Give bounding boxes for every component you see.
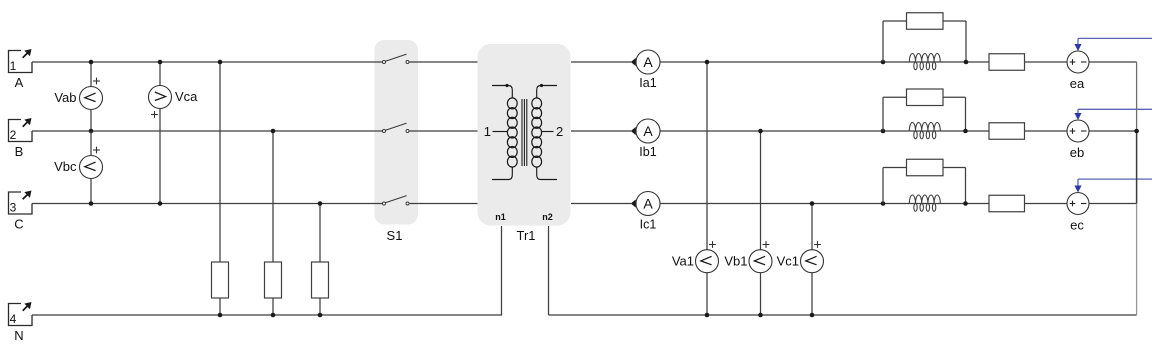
node: Vab branch on phase A	[89, 60, 94, 65]
wire Vca branch upper	[159, 62, 161, 86]
parallel resistor (phase b)	[907, 89, 944, 106]
svg-text:3: 3	[10, 201, 17, 215]
wire phase A: switch S1 to Tr1	[410, 61, 478, 63]
wire RL loop top-right (phase a)	[943, 20, 966, 22]
svg-text:eb: eb	[1070, 145, 1084, 160]
svg-text:Vab: Vab	[54, 90, 76, 105]
resistor (phase B shunt)	[265, 262, 282, 298]
Tr1 core	[522, 99, 527, 166]
svg-text:n2: n2	[542, 212, 553, 222]
node: Va1 branch tap	[705, 60, 710, 65]
wire Vc1 branch to neutral	[811, 273, 813, 315]
node: RL branch right (phase a)	[964, 60, 969, 65]
wire neutral: n2 to bottom right corner	[549, 314, 1137, 316]
port 3 (phase C terminal)	[9, 191, 33, 232]
port 2 (phase B terminal)	[9, 118, 33, 159]
svg-text:4: 4	[10, 312, 17, 326]
wire RL loop right (phase a)	[965, 21, 967, 62]
wire RL loop top-left (phase a)	[883, 20, 907, 22]
wire phase B: switch S1 to Tr1	[410, 130, 478, 132]
Tr1 primary top lead + polarity dot	[492, 84, 512, 99]
port 1 (phase A terminal)	[9, 49, 33, 90]
svg-text:ea: ea	[1070, 76, 1085, 91]
wire Va1 branch upper	[706, 62, 708, 250]
source ea	[1067, 51, 1089, 91]
resistor (phase A shunt)	[212, 262, 229, 298]
svg-text:N: N	[14, 328, 23, 343]
svg-text:n1: n1	[495, 212, 506, 222]
svg-text:Va1: Va1	[672, 254, 694, 269]
svg-text:Vc1: Vc1	[777, 254, 799, 269]
ammeter Ia1	[631, 50, 660, 90]
label Tr1	[516, 228, 535, 243]
source ec	[1067, 193, 1089, 233]
wire n1 to neutral	[501, 226, 503, 315]
node: Va1 on neutral	[705, 313, 710, 318]
wire phase C: port 3 to switch S1	[32, 203, 383, 205]
transformer block Tr1 background	[478, 44, 571, 226]
Tr1 primary winding	[507, 98, 517, 167]
series resistor (phase b)	[989, 123, 1025, 140]
node: Vb1 on neutral	[758, 313, 763, 318]
wire Vbc to phase C	[90, 179, 92, 204]
Tr1 primary bottom lead	[492, 167, 512, 180]
right rail (sources common to neutral)	[1136, 62, 1138, 315]
svg-text:B: B	[15, 144, 24, 159]
node: RL branch left (phase a)	[881, 60, 886, 65]
wire RL loop left (phase c)	[882, 168, 884, 204]
control signal wire into eb	[1074, 109, 1152, 120]
wire phase A: Ia1 to series R	[660, 61, 989, 63]
wire phase A: port 1 to switch S1	[32, 61, 383, 63]
series resistor (phase c)	[989, 195, 1025, 212]
svg-text:S1: S1	[387, 228, 403, 243]
node: branch on phase B	[89, 129, 94, 134]
source eb	[1067, 120, 1089, 160]
wire phase C: source ec to right rail	[1089, 203, 1137, 205]
svg-text:Ic1: Ic1	[640, 218, 657, 232]
wire RL loop top-right (phase b)	[943, 96, 966, 98]
wire phase C: series R to source ec	[1025, 203, 1068, 205]
node: Vca branch on phase A	[158, 60, 163, 65]
Tr1 pin n2 label	[542, 212, 553, 222]
control signal wire into ec	[1074, 179, 1152, 192]
wire Va1 branch to neutral	[706, 273, 708, 315]
Tr1 pin n1 label	[495, 212, 506, 222]
wire phase A: source ea to right rail	[1089, 61, 1137, 63]
wire RL loop right (phase c)	[965, 168, 967, 204]
node: resistor branch on neutral (C)	[318, 313, 323, 318]
wire Vb1 branch upper	[760, 131, 762, 250]
wire phase C: Ic1 to series R	[660, 203, 989, 205]
svg-text:ec: ec	[1070, 218, 1084, 233]
Tr1 secondary bottom lead	[537, 167, 557, 180]
ammeter Ic1	[631, 192, 660, 232]
node: eb on right rail	[1134, 129, 1139, 134]
wire Vb1 branch to neutral	[760, 273, 762, 315]
port 4 (neutral terminal)	[9, 302, 33, 343]
svg-text:Ib1: Ib1	[639, 145, 656, 159]
voltmeter Va1	[672, 241, 719, 273]
parallel resistor (phase a)	[907, 13, 944, 30]
node: RL branch right (phase b)	[963, 129, 968, 134]
voltmeter Vb1	[724, 241, 772, 273]
resistor (phase C shunt)	[312, 262, 329, 298]
wire resistor branch from phase A	[219, 62, 221, 262]
svg-text:Ia1: Ia1	[639, 76, 656, 90]
wire resistor branch to neutral (A)	[219, 298, 221, 315]
wire RL loop top-right (phase c)	[943, 167, 966, 169]
wire phase C: Tr1 to ammeter Ic1	[571, 203, 631, 205]
node: resistor branch on phase C	[318, 201, 323, 206]
node: resistor branch on neutral (B)	[271, 313, 276, 318]
node: RL branch right (phase c)	[963, 201, 968, 206]
svg-text:1: 1	[484, 124, 491, 139]
ammeter Ib1	[631, 119, 660, 159]
svg-text:Tr1: Tr1	[516, 228, 535, 243]
switch S1 pole b	[383, 123, 410, 132]
node: Vb1 branch tap	[758, 129, 763, 134]
wire phase B: Tr1 to ammeter Ib1	[571, 130, 631, 132]
node: Vc1 on neutral	[810, 313, 815, 318]
switch S1 pole a	[383, 54, 410, 63]
svg-text:2: 2	[556, 124, 563, 139]
node: RL branch left (phase c)	[881, 201, 886, 206]
voltmeter Vbc	[54, 147, 102, 179]
wire phase B: Ib1 to series R	[660, 130, 989, 132]
voltmeter Vab	[54, 78, 102, 110]
control signal wire into ea	[1074, 38, 1152, 51]
wire RL loop right (phase b)	[965, 97, 967, 131]
inductor (phase b)	[909, 122, 940, 138]
wire n2 to neutral	[548, 226, 550, 315]
Tr1 pin 1 label + lead	[484, 124, 508, 139]
wire phase B: port 2 to switch S1	[32, 130, 383, 132]
wire Vbc branch upper	[90, 131, 92, 156]
Tr1 secondary winding	[532, 98, 542, 167]
wire RL loop top-left (phase c)	[883, 167, 907, 169]
node: resistor branch on neutral (A)	[218, 313, 223, 318]
wire resistor branch to neutral (C)	[319, 298, 321, 315]
inductor (phase c)	[909, 195, 940, 211]
wire phase A: Tr1 to ammeter Ia1	[571, 61, 631, 63]
svg-text:Vbc: Vbc	[54, 159, 77, 174]
wire phase A: series R to source ea	[1025, 61, 1068, 63]
node: Vc1 branch tap	[810, 201, 815, 206]
wire RL loop left (phase b)	[882, 97, 884, 131]
svg-text:A: A	[15, 75, 24, 90]
wire resistor branch to neutral (B)	[272, 298, 274, 315]
voltmeter Vc1	[777, 241, 824, 273]
svg-text:A: A	[643, 123, 653, 139]
Tr1 secondary top lead + polarity dot	[537, 84, 557, 99]
wire Vab to phase B	[90, 110, 92, 132]
node: RL branch left (phase b)	[881, 129, 886, 134]
wire resistor branch from phase B	[272, 131, 274, 262]
parallel resistor (phase c)	[907, 159, 944, 176]
wire phase C: switch S1 to Tr1	[410, 203, 478, 205]
switch S1 pole c	[383, 196, 410, 205]
svg-text:2: 2	[10, 128, 17, 142]
wire resistor branch from phase C	[319, 204, 321, 263]
series resistor (phase a)	[989, 54, 1025, 71]
svg-text:Vca: Vca	[175, 89, 198, 104]
label S1	[387, 228, 403, 243]
wire RL loop top-left (phase b)	[883, 96, 907, 98]
svg-text:1: 1	[10, 59, 17, 73]
svg-text:Vb1: Vb1	[724, 254, 747, 269]
wire phase B: series R to source eb	[1025, 130, 1068, 132]
voltmeter Vca	[149, 86, 199, 118]
wire Vab branch upper	[90, 62, 92, 87]
wire phase B: source eb to right rail	[1089, 130, 1136, 132]
inductor (phase a)	[909, 53, 940, 69]
wire Vc1 branch upper	[811, 204, 813, 250]
switch block S1 background	[374, 40, 418, 225]
wire neutral: port 4 to n1	[32, 314, 502, 316]
node: resistor branch on phase B	[271, 129, 276, 134]
wire RL loop left (phase a)	[882, 21, 884, 62]
node: Vbc branch on phase C	[89, 201, 94, 206]
svg-text:C: C	[14, 217, 23, 232]
node: resistor branch on phase A	[218, 60, 223, 65]
wire Vca down to phase C	[159, 109, 161, 204]
svg-text:A: A	[643, 195, 653, 211]
svg-text:A: A	[643, 54, 653, 70]
Tr1 pin 2 label + lead	[542, 124, 564, 139]
node: Vca branch on phase C	[158, 201, 163, 206]
